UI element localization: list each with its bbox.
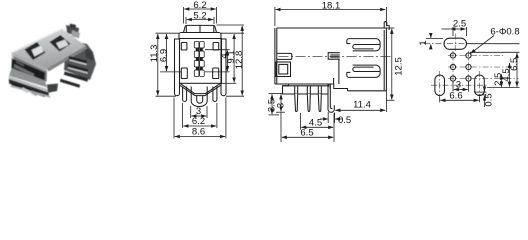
side outer box — [277, 28, 387, 91]
photo top face highlight edge — [12, 29, 62, 53]
pcb dimensions — [426, 27, 520, 107]
dim 2.5 right — [501, 74, 503, 86]
dim 3 left — [276, 111, 285, 113]
photo right edge band — [47, 46, 88, 72]
photo pin 3 — [64, 72, 88, 82]
side upper contact — [347, 39, 380, 51]
dim 4.5 right — [509, 63, 511, 87]
dim 6.6 pcb — [439, 97, 441, 103]
svg-text:11.4: 11.4 — [353, 100, 371, 111]
left lower slot — [181, 68, 187, 79]
dim 6.9 — [166, 34, 168, 71]
hood inner ticks — [185, 26, 187, 33]
chevron bottom — [180, 83, 221, 93]
pcb left stadium — [435, 75, 445, 96]
centerline row3 — [448, 78, 519, 80]
ext line 6.5 top — [470, 51, 520, 53]
dim 9.1 — [233, 34, 235, 83]
dim 12.8 — [241, 26, 243, 96]
photo rear bits top-right — [66, 25, 79, 36]
pcb top slot — [444, 38, 467, 49]
photo glint dot — [63, 28, 66, 31]
photo cavity — [12, 59, 46, 81]
pcb centerlines — [424, 34, 519, 100]
side left tab — [277, 53, 292, 59]
photo front face — [11, 52, 47, 82]
dim 6.2 top — [183, 7, 185, 24]
centerline row1 — [448, 55, 503, 57]
ext lines right — [217, 24, 245, 26]
svg-text:18.1: 18.1 — [322, 1, 341, 12]
photo lower lip — [9, 68, 47, 88]
side center clip — [328, 53, 340, 60]
hood — [184, 25, 217, 32]
centerline col2 — [468, 51, 470, 84]
pcb hole r3c2 — [466, 76, 471, 81]
centerline right stadium — [479, 71, 481, 99]
leader 6-0.8 — [471, 36, 494, 54]
side base block — [283, 84, 329, 94]
photo pin 2 — [67, 64, 88, 73]
front view dimensions — [156, 7, 245, 139]
contact stack — [194, 42, 204, 77]
dim 12.5 — [386, 27, 394, 29]
side top-right hook — [384, 22, 389, 30]
dim 18.1 — [274, 7, 276, 26]
centerline col1 — [452, 51, 454, 84]
shoulder — [179, 33, 221, 39]
side internal verticals — [338, 60, 340, 84]
dim 3 pcb — [452, 82, 454, 92]
photo bezel lower strip — [9, 76, 49, 92]
centerline slot horizontal — [424, 43, 472, 45]
left tab — [175, 39, 180, 96]
dim 2.5 pcb top — [452, 27, 454, 36]
pcb dim texts — [418, 19, 520, 107]
photo front face left rim — [12, 52, 14, 77]
hood center seam — [199, 25, 201, 32]
side left window — [276, 62, 291, 77]
dim 5.2 — [185, 17, 187, 24]
pcb hole r1c2 — [466, 53, 471, 58]
side lower contact — [347, 65, 380, 77]
right tab — [221, 39, 226, 96]
dim 0.5 foot — [327, 112, 329, 123]
svg-text:6-Φ0.8: 6-Φ0.8 — [490, 27, 519, 38]
dim 6.5 — [282, 136, 333, 138]
pcb hole r3c1 — [450, 76, 455, 81]
pcb hole r2c1 — [450, 64, 455, 69]
photo dark base right wing — [47, 84, 58, 93]
svg-text:6.9: 6.9 — [158, 49, 169, 62]
dim 0.5 pcb — [474, 91, 487, 93]
photo window 1 — [25, 42, 46, 60]
left leg — [183, 87, 187, 102]
ext line slot center right — [467, 43, 520, 45]
svg-text:0.5: 0.5 — [484, 93, 495, 106]
svg-text:12.5: 12.5 — [394, 57, 405, 76]
dim 8.6 bottom — [175, 136, 225, 138]
centerline slot vertical — [454, 34, 456, 53]
centerline row2 — [448, 66, 511, 68]
side bottom edges — [275, 83, 334, 85]
dim 1 pcb left — [426, 38, 443, 40]
centerline left stadium — [439, 71, 441, 99]
photo window 2 — [50, 35, 71, 52]
svg-text:2.5: 2.5 — [453, 19, 466, 30]
dim 4.5 — [300, 113, 302, 130]
side view dim texts — [267, 1, 405, 139]
right upper slot — [213, 43, 219, 51]
side view dimensions — [269, 7, 395, 142]
svg-text:6.5: 6.5 — [509, 58, 520, 71]
side leg 1 — [295, 94, 298, 111]
svg-text:0.5: 0.5 — [338, 115, 351, 126]
svg-text:6.2: 6.2 — [192, 116, 205, 127]
photo base bottom light edge — [10, 85, 51, 98]
side right edge inner — [383, 30, 385, 90]
right leg — [213, 87, 217, 102]
svg-text:6.5: 6.5 — [300, 128, 313, 139]
right lower slot — [213, 68, 219, 79]
dim 11.4 — [385, 91, 387, 112]
ext lines left — [156, 32, 180, 34]
dim 6.5 right — [516, 53, 518, 87]
svg-text:3: 3 — [456, 79, 461, 90]
side centerline — [279, 55, 392, 57]
pcb hole r1c1 — [450, 53, 455, 58]
pcb right stadium — [475, 75, 485, 96]
dim 6.2 bottom — [183, 125, 216, 127]
svg-text:3: 3 — [276, 103, 287, 108]
left upper slot — [181, 43, 187, 51]
bottom ext lines — [190, 106, 192, 118]
pcb hole r2c2 — [466, 64, 471, 69]
dim 3 bottom — [192, 115, 207, 117]
photo pin 4 — [60, 79, 80, 88]
centerline stadiums horizontal — [431, 84, 488, 86]
dim 11.3 — [157, 34, 159, 95]
photo cavity inner contacts — [14, 64, 34, 77]
photo base dark — [9, 79, 49, 97]
svg-text:6.2: 6.2 — [193, 0, 206, 11]
svg-text:6.6: 6.6 — [449, 90, 462, 101]
side J-foot — [328, 84, 334, 112]
side base leg pass-through lines — [294, 86, 296, 94]
center post — [191, 87, 207, 107]
dim 4 — [226, 51, 228, 72]
front view dim texts — [149, 0, 245, 138]
ext line right dims bottom — [487, 87, 520, 89]
photo base bottom black — [12, 83, 45, 97]
photo top face — [12, 29, 86, 69]
svg-text:1: 1 — [418, 40, 429, 45]
svg-text:12.8: 12.8 — [234, 51, 245, 70]
svg-text:5.2: 5.2 — [193, 11, 206, 22]
body outline — [180, 39, 222, 84]
photo base leg glints — [22, 87, 29, 93]
side leg 2 — [307, 94, 310, 111]
photo front face upper rim — [12, 52, 47, 72]
side leg 3 — [318, 94, 321, 111]
photo pin 1 — [69, 56, 88, 65]
side left edge double — [274, 28, 276, 84]
dim 3.5 left — [269, 93, 283, 95]
photo rear-right gray column — [64, 40, 96, 80]
svg-text:8.6: 8.6 — [192, 127, 205, 138]
